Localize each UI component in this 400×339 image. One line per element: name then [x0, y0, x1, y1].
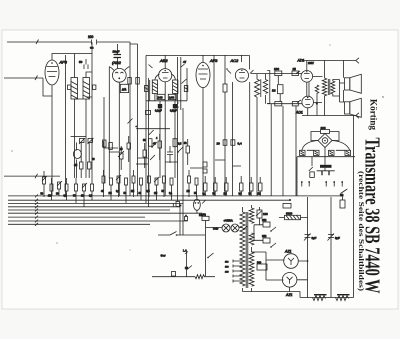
left tuning cluster: capacitor CV1: [80, 139, 85, 143]
component box b1: [120, 84, 128, 92]
resistor R25: [83, 184, 86, 191]
speaker SP2: [345, 102, 350, 114]
capacitor C8: [265, 74, 267, 104]
wire bus 3: [8, 203, 183, 235]
resistor R52: [186, 146, 190, 153]
svg-text:2M: 2M: [224, 194, 227, 196]
switch S2: [158, 232, 205, 236]
wire vertical x296: [295, 106, 297, 196]
wire AB2 first leads: [118, 82, 120, 196]
svg-text:1M: 1M: [81, 196, 84, 198]
inductor L5 IFT2 b: [173, 80, 178, 94]
inductor L1 IFT1 primary: [71, 78, 78, 100]
capacitor C4 240: [157, 94, 165, 99]
resistor R40: [204, 183, 208, 191]
svg-text:Dafb: Dafb: [213, 228, 219, 231]
wire AZ loop: [252, 252, 285, 280]
wire link a: [104, 141, 119, 148]
node dot x137: [135, 126, 137, 128]
switch contact b: [271, 243, 276, 247]
svg-text:100: 100: [321, 126, 326, 130]
capacitor C21: [127, 143, 131, 149]
svg-text:8µF: 8µF: [335, 236, 340, 240]
lamp P2: [222, 224, 230, 232]
transformer taps: [233, 260, 243, 283]
lamp P3: [231, 224, 239, 232]
wire T2 leads: [325, 61, 345, 116]
svg-text:Δ½: Δ½: [122, 88, 127, 92]
svg-text:2M: 2M: [48, 196, 51, 198]
tube AZ1 second: [282, 273, 297, 288]
resistor R31: [132, 176, 135, 183]
wire vertical x130: [130, 42, 138, 196]
capacitor C15 282: [263, 238, 270, 243]
resistor R24: [75, 184, 78, 191]
wire vertical x146: [145, 56, 147, 204]
wire IFT1 leads: [75, 54, 93, 179]
wire bus 4: [8, 207, 180, 235]
capacitor CV2: [88, 139, 93, 143]
svg-text:20µF: 20µF: [113, 50, 120, 54]
resistor R23: [65, 184, 68, 191]
wire bus 5: [8, 209, 170, 211]
wire vertical x232: [232, 82, 234, 196]
component box C1f: [146, 111, 151, 115]
resistor R27: [102, 176, 105, 183]
transformer T2 secondary: [331, 81, 335, 94]
wire link b: [136, 163, 148, 165]
resistor R14 BAD: [257, 264, 267, 270]
wire AF3 second leads: [203, 55, 214, 196]
component K1: [187, 252, 193, 277]
svg-text:8µF: 8µF: [312, 236, 317, 240]
resistor R12 140: [202, 216, 209, 220]
wire vertical x148: [148, 78, 150, 207]
capacitor C16 8uF: [304, 234, 311, 241]
tube AZ1 first electrodes: [288, 258, 294, 265]
svg-text:20: 20: [217, 142, 221, 146]
resistor R41: [214, 183, 218, 191]
wire vertical x226: [224, 55, 226, 196]
switch contact c: [150, 142, 157, 160]
capacitor C20: [120, 153, 124, 159]
wire bus 7: [8, 216, 145, 218]
resistor R54: [173, 139, 177, 147]
switch S1 contacts: [302, 183, 348, 194]
transformer T2 primary: [322, 78, 326, 96]
wire switch line 2: [152, 276, 215, 278]
resistor R53: [149, 139, 153, 147]
svg-text:280V: 280V: [308, 62, 314, 65]
resistor R2: [136, 78, 140, 85]
resistor row R20: [43, 177, 46, 184]
tube AF3 second: [196, 62, 210, 87]
inductor L12 field coil 6000: [285, 215, 301, 219]
svg-text:540: 540: [257, 262, 262, 265]
resistor R35: [163, 176, 166, 183]
tube AC2 electrodes: [239, 73, 245, 79]
svg-text:L.A: L.A: [183, 250, 187, 253]
resistor R37: [188, 176, 191, 183]
capacitor C17 8uF: [328, 234, 335, 241]
svg-text:50: 50: [79, 60, 83, 64]
svg-text:AC2: AC2: [230, 58, 240, 63]
resistor R3: [223, 84, 227, 92]
inductor L7 side: [184, 86, 188, 92]
resistor R55: [103, 140, 107, 147]
resistor R34: [155, 178, 158, 185]
transformer T1 winding 4V: [249, 205, 254, 223]
inductor L11 mains tap: [345, 150, 351, 155]
resistor R50: [143, 150, 147, 157]
wire vertical cap lead 1: [307, 197, 309, 298]
resistor R42: [225, 183, 229, 191]
svg-text:25: 25: [293, 67, 297, 71]
wire speaker feeds: [343, 61, 345, 102]
tube AF3 second electrodes: [198, 69, 208, 79]
variable arrow: [208, 253, 214, 258]
resistor R22: [58, 182, 61, 189]
component box top: [283, 204, 291, 209]
grid cap marks AC2: [228, 70, 254, 74]
svg-text:Körting: Körting: [369, 99, 379, 131]
tube AB2 second: [159, 69, 172, 82]
resistor R21: [50, 184, 53, 191]
svg-text:160: 160: [263, 212, 268, 216]
resistor R43: [240, 183, 244, 191]
svg-text:0,5µF: 0,5µF: [170, 109, 177, 113]
capacitor C2: [84, 59, 88, 69]
wire IFT2 leads: [150, 68, 187, 178]
wire speaker line 2: [302, 113, 359, 119]
resistor R5 25: [292, 71, 299, 76]
capacitor C3 20u: [117, 44, 119, 68]
resistor R10: [80, 162, 84, 169]
inductor L3 osc: [255, 79, 260, 97]
svg-text:100: 100: [274, 67, 279, 71]
resistor R29: [117, 176, 120, 183]
wire top bus a: [7, 41, 130, 43]
wire anode line y73: [251, 73, 302, 75]
svg-text:47: 47: [183, 60, 187, 64]
capacitor C12: [176, 202, 180, 207]
svg-text:(AB2: (AB2: [112, 60, 122, 65]
svg-text:AZ1: AZ1: [285, 293, 292, 297]
wire vertical x104: [103, 97, 105, 183]
tube AF3 first: [45, 60, 59, 85]
wire AF3 cathode down: [51, 86, 53, 197]
resistor R28: [110, 178, 113, 185]
resistor R17: [275, 102, 282, 106]
tube AF3 anode dot: [51, 62, 53, 64]
svg-text:AZ1: AZ1: [284, 250, 291, 254]
resistor R56: [109, 143, 113, 150]
wire bus 6: [8, 212, 203, 214]
svg-text:140: 140: [169, 96, 174, 100]
resistor R16: [336, 296, 349, 301]
inductor L10 mains tap: [329, 150, 335, 155]
switch contact d: [178, 147, 183, 152]
resistor R6: [277, 76, 279, 85]
fuse F1 diamond: [318, 134, 332, 148]
svg-text:AD1: AD1: [295, 111, 303, 115]
tube AD1 second: [302, 96, 314, 108]
capacitor C1 100: [92, 40, 97, 45]
component small box: [203, 162, 207, 167]
wire AF3 anode: [52, 54, 92, 61]
wire fuse arcs: [311, 132, 339, 141]
node ticks column: [35, 194, 38, 225]
wire vertical x183: [182, 108, 184, 204]
svg-text:0,4: 0,4: [238, 142, 243, 146]
scan specks: [382, 96, 383, 97]
transformer T1 primary: [240, 212, 245, 286]
svg-text:1M: 1M: [258, 194, 261, 196]
wire mains bottoms: [297, 156, 355, 158]
transformer T1 core: [246, 212, 248, 288]
tube AZ1 first: [284, 254, 299, 269]
tube small V: [73, 150, 81, 159]
capacitor C11 block: [320, 165, 332, 168]
tube AD1 second electrodes: [305, 100, 311, 105]
tube AC2: [235, 69, 248, 82]
value smudges row: [41, 138, 261, 198]
inductor L4 IFT2 a: [152, 80, 157, 94]
resistor R32: [140, 178, 143, 185]
wire AD1 grid line: [267, 103, 302, 105]
wire AD1 first anode: [306, 61, 308, 71]
resistor R33: [148, 176, 151, 183]
wire AC2 top: [242, 55, 250, 196]
wire lamp leads: [206, 227, 243, 229]
tube AF3 electrodes: [47, 67, 58, 77]
resistor R4 100: [275, 71, 282, 76]
tube AB2 first: [112, 68, 126, 82]
svg-text:AB2: AB2: [159, 58, 168, 63]
resistor R7: [315, 85, 319, 116]
tube AB2 first electrodes: [115, 72, 123, 73]
transformer T2 core: [328, 79, 330, 95]
capacitor C22: [167, 146, 173, 163]
svg-text:1M: 1M: [187, 191, 190, 193]
svg-text:(rechte Seite des Schaltbildes: (rechte Seite des Schaltbildes): [357, 171, 365, 292]
grid marks AD1: [296, 71, 301, 103]
svg-text:2M: 2M: [109, 193, 112, 195]
wire vertical x92: [91, 42, 93, 178]
speaker SP1: [345, 78, 350, 90]
wire bus 2: [8, 199, 290, 201]
capacitor C7: [173, 104, 177, 108]
resistor R38: [195, 178, 198, 185]
svg-text:AF3: AF3: [59, 60, 68, 65]
grid cap marks AB2 first: [109, 67, 129, 71]
capacitor C5 140: [168, 94, 176, 99]
resistor R13 160: [257, 210, 262, 218]
lamp P1: [194, 199, 201, 210]
wire links mid: [109, 152, 241, 168]
svg-text:0,1µF: 0,1µF: [155, 109, 162, 113]
transformer T1 secondary: [249, 252, 254, 286]
switch contact on x129: [128, 119, 133, 124]
wire AZ out: [290, 261, 308, 292]
wire antenna line: [4, 174, 60, 179]
inductor L2 IFT1 secondary: [83, 78, 90, 100]
wire vertical x65: [65, 55, 67, 196]
resistor R15: [313, 296, 326, 301]
grid cap marks AB2 second: [149, 64, 185, 68]
wire to taps: [242, 226, 247, 230]
wire vertical x271: [270, 104, 272, 196]
wire mains arcs: [302, 141, 350, 157]
wire AD1 second leads: [307, 77, 323, 116]
wire bottom rail: [243, 288, 354, 298]
svg-text:AF3: AF3: [209, 58, 218, 63]
wire AB2 second leads: [164, 56, 166, 197]
capacitor C14 282: [263, 222, 270, 227]
node dot mid: [144, 163, 146, 165]
switch contact k: [149, 130, 154, 135]
resistor R26: [91, 184, 94, 191]
transformer T1 winding 6V: [249, 233, 254, 252]
wire vertical x72: [68, 85, 71, 90]
wire grid input: [4, 76, 52, 97]
svg-text:4M: 4M: [74, 165, 77, 167]
svg-text:100: 100: [88, 35, 94, 39]
wire bus 1: [8, 195, 343, 197]
svg-text:282: 282: [262, 218, 267, 222]
resistor R51: [158, 141, 162, 148]
wire vertical cap lead 2: [330, 197, 332, 298]
resistor R18: [292, 102, 298, 106]
wire speaker line 1: [302, 58, 359, 64]
wire T1 top: [242, 207, 244, 212]
node a tick: [36, 40, 39, 45]
inductor L6 side: [145, 86, 149, 92]
wire L3 leads: [256, 74, 258, 196]
capacitor C13: [172, 272, 176, 277]
wire mains row: [307, 149, 345, 151]
resistor R44: [250, 183, 254, 191]
wire line B: [146, 54, 249, 56]
svg-text:2M: 2M: [154, 193, 157, 195]
wire bus 8: [8, 220, 188, 222]
resistor R45: [259, 183, 263, 191]
wire IFT2 bottom: [146, 100, 187, 102]
resistor R8 100: [321, 130, 330, 134]
tube AD1 first: [301, 71, 313, 83]
inductor L9 mains tap: [314, 150, 320, 155]
inductor L8 mains tap: [300, 150, 306, 155]
capacitor C6: [158, 104, 162, 108]
wire switch drops: [297, 116, 354, 298]
resistor R11: [88, 162, 92, 169]
svg-text:1M: 1M: [272, 90, 275, 93]
resistor R9 30: [340, 200, 345, 208]
wire vertical x283: [282, 106, 284, 196]
resistor R30: [125, 178, 128, 185]
tube AB2 second electrodes: [162, 73, 169, 79]
wire vertical x177: [177, 57, 186, 202]
wire link y128.7: [136, 128, 170, 130]
resistor R36: [170, 178, 173, 185]
svg-text:282: 282: [262, 234, 267, 238]
wire cluster leads: [77, 143, 90, 179]
svg-text:1M: 1M: [131, 191, 134, 193]
svg-text:+VERA: +VERA: [224, 219, 233, 223]
resistor R1: [128, 78, 132, 85]
tube AZ1 second electrodes: [287, 277, 293, 284]
svg-text:240: 240: [158, 96, 163, 100]
node junction: [185, 215, 187, 217]
svg-text:6000: 6000: [286, 212, 293, 216]
wire bus 9: [8, 223, 150, 225]
svg-text:Ger: Ger: [161, 254, 166, 258]
wire IFT1 bottom links: [75, 97, 93, 99]
tube AD1 first electrodes: [304, 74, 310, 79]
switch contact a: [271, 227, 276, 231]
